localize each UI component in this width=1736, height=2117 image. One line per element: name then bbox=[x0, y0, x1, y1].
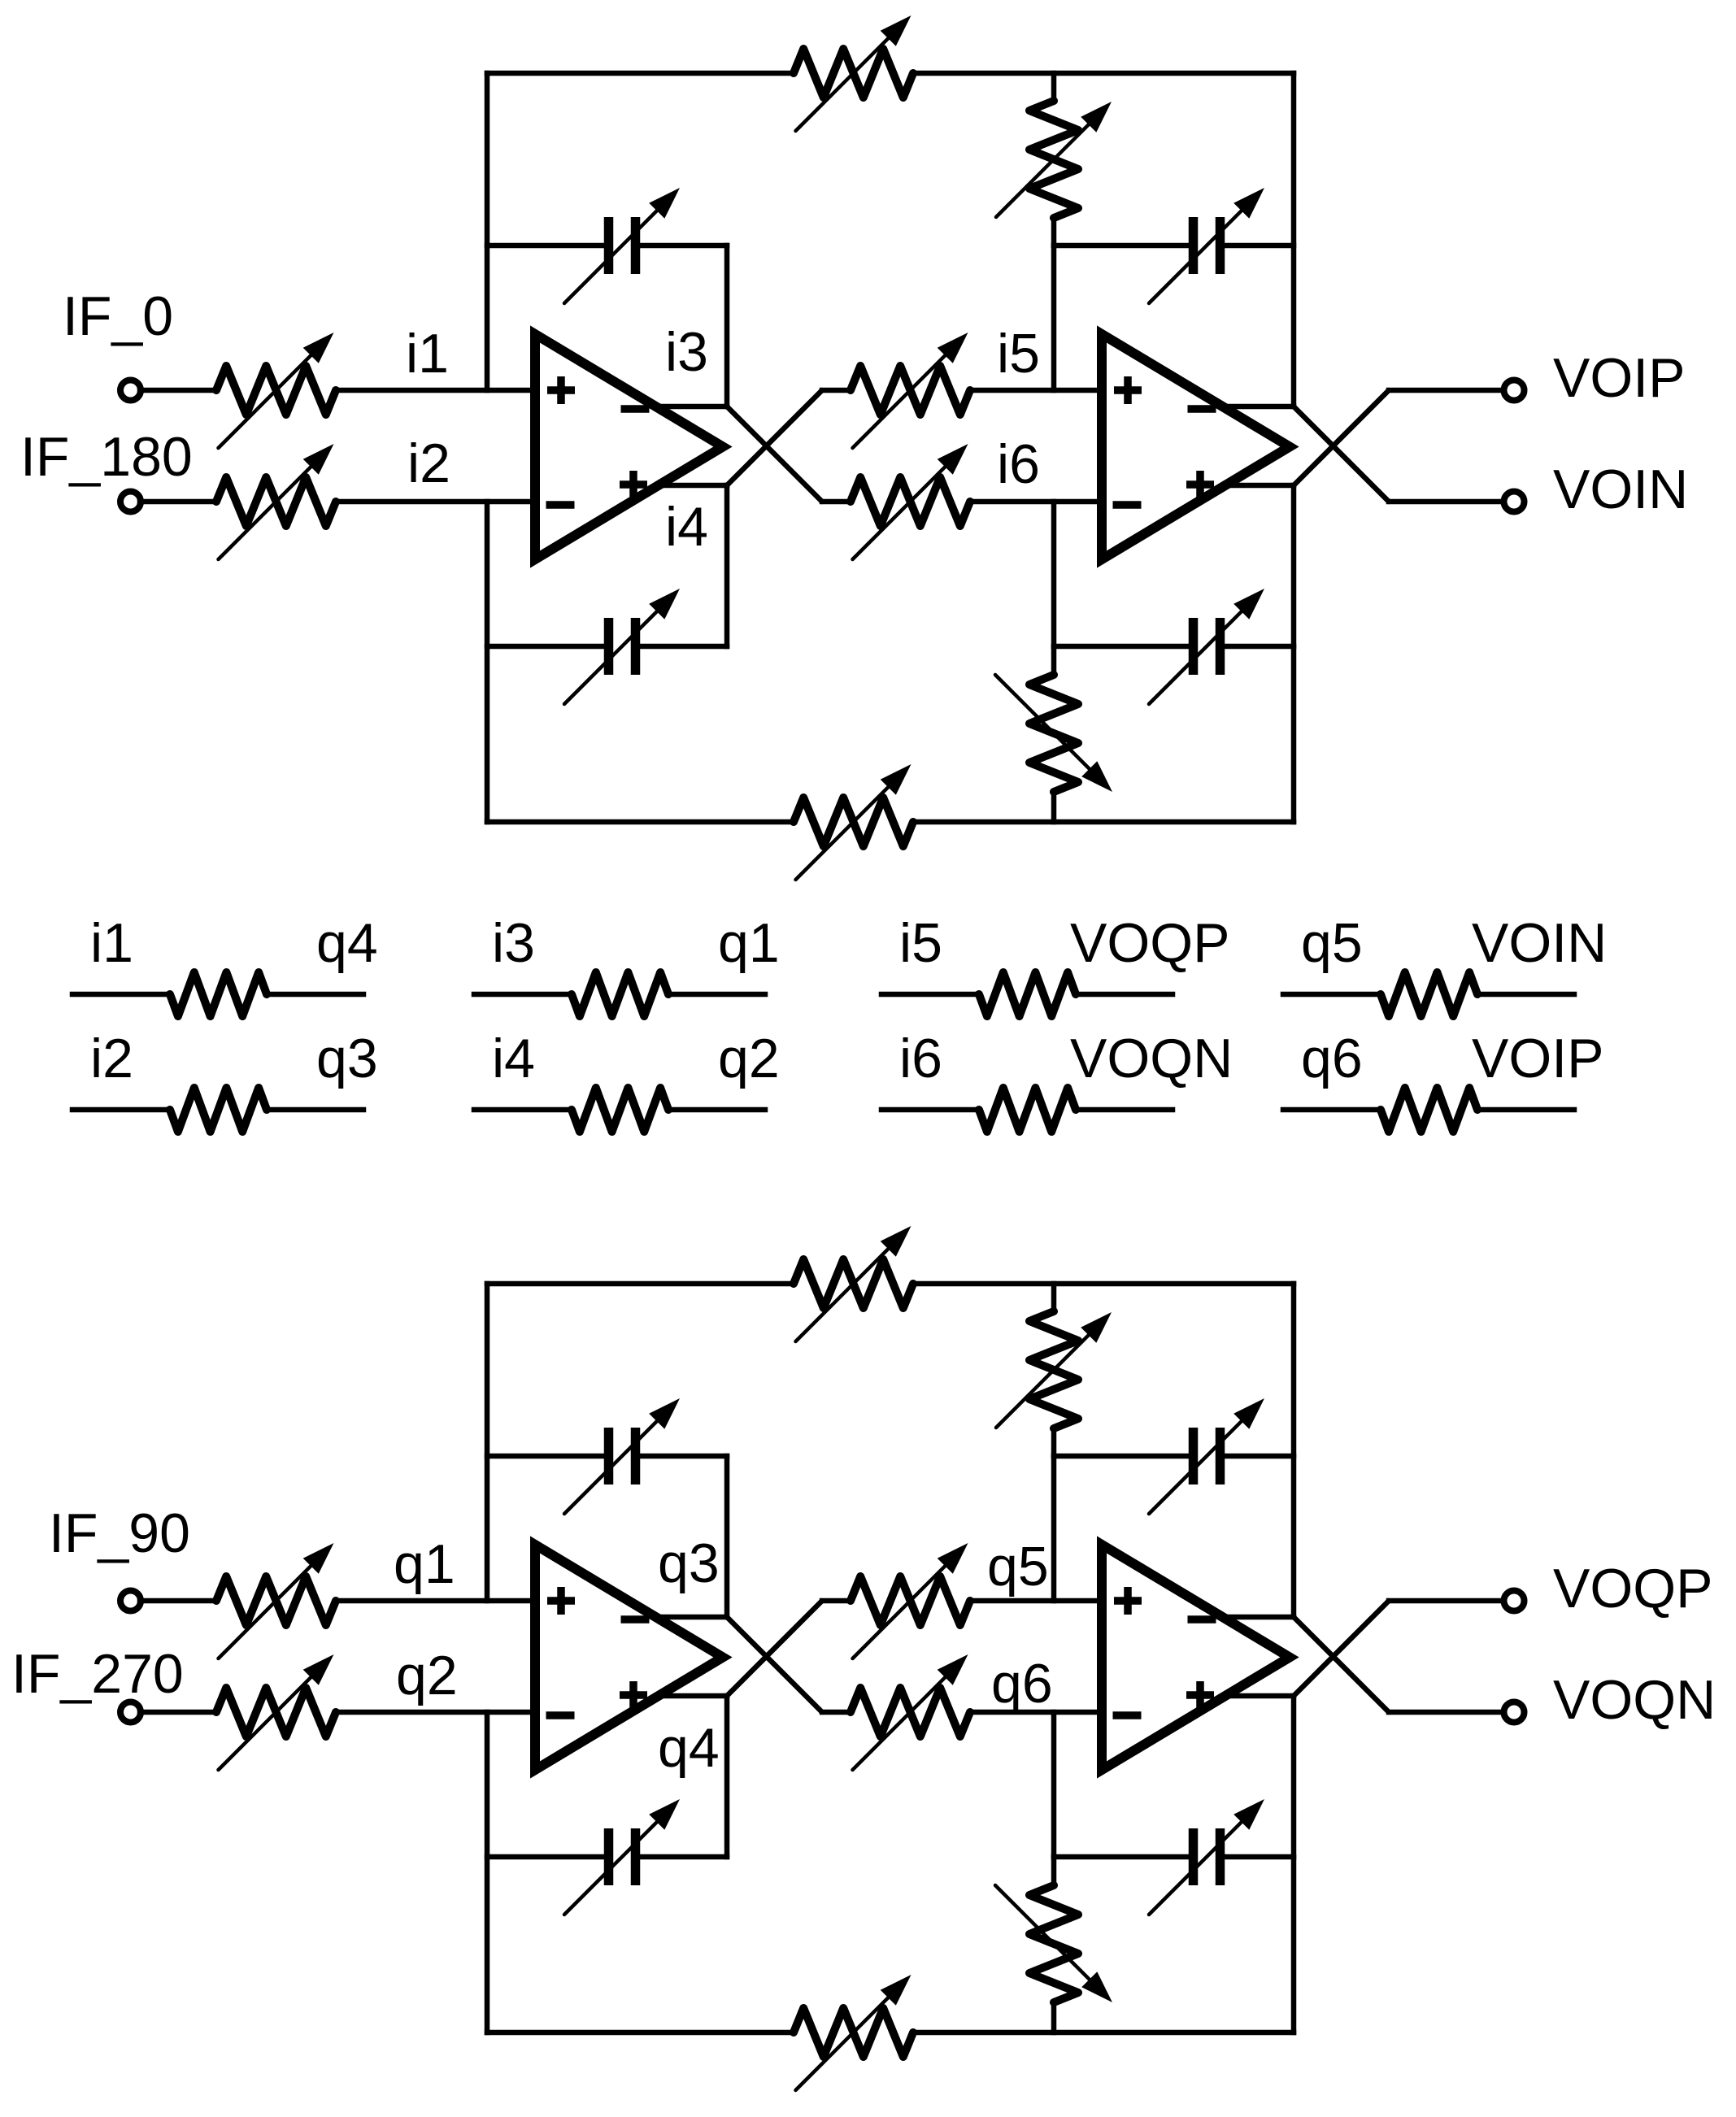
op-amp A2 + input sign bbox=[1114, 1587, 1142, 1615]
svg-text:VOIP: VOIP bbox=[1472, 1028, 1604, 1089]
resistor variable, IF_90 to node q1 bbox=[216, 1543, 336, 1658]
wire node q2 vertical to bottom feedback loop bbox=[485, 1712, 490, 2032]
wire bottom feedback loop right segment bbox=[913, 819, 1294, 825]
op-amp A1 bbox=[535, 334, 723, 559]
svg-text:i4: i4 bbox=[665, 496, 708, 558]
resistor variable, vertical feedback output node to i6 bbox=[995, 675, 1112, 792]
wire node q4 vertical bbox=[724, 1696, 730, 1857]
svg-text:q5: q5 bbox=[1301, 912, 1363, 974]
op-amp A1 + input sign bbox=[547, 376, 575, 404]
svg-text:IF_90: IF_90 bbox=[49, 1502, 190, 1564]
svg-text:VOQP: VOQP bbox=[1553, 1558, 1713, 1619]
node label i6 bbox=[899, 1028, 942, 1089]
wire A2 lower cap rail output side bbox=[1225, 1854, 1294, 1860]
svg-text:q1: q1 bbox=[718, 912, 780, 974]
capacitor variable, op-amp A1 upper feedback q1 to q3 bbox=[564, 1398, 680, 1514]
node label i4 bbox=[492, 1028, 535, 1089]
wire input resistor to node q1 and op-amp A1 + input bbox=[336, 1598, 535, 1604]
node label q3 bbox=[658, 1532, 720, 1594]
wire bottom feedback loop left segment bbox=[487, 819, 794, 825]
wire resistor to node q6 and op-amp A2 - input bbox=[970, 1710, 1102, 1715]
op-amp A1 - output sign bbox=[621, 405, 650, 413]
wire resistor to node i5 and op-amp A2 + input bbox=[970, 388, 1102, 393]
svg-text:i4: i4 bbox=[492, 1028, 535, 1089]
wire A2 upper cap rail q5 side bbox=[1054, 1454, 1189, 1459]
wire upper vertical resistor to upper cap rail bbox=[1051, 218, 1057, 246]
svg-text:i1: i1 bbox=[406, 323, 449, 385]
node label i3 bbox=[665, 321, 708, 383]
terminal IF_0 bbox=[120, 380, 141, 401]
wire node i6 vertical bbox=[1051, 502, 1057, 646]
node label i5 bbox=[997, 323, 1040, 385]
resistor coupling q5 to VOIN bbox=[1283, 972, 1574, 1016]
terminal VOIN bbox=[1504, 492, 1525, 512]
wire IF_270 terminal to input resistor bbox=[140, 1710, 216, 1715]
node label i2 bbox=[407, 433, 450, 494]
wire upper rail into resistor to q5 bbox=[822, 1598, 851, 1604]
resistor variable, vertical feedback output node to q5 bbox=[996, 1311, 1112, 1428]
svg-text:i3: i3 bbox=[492, 912, 535, 974]
wire A2 lower cap rail q6 side bbox=[1054, 1854, 1189, 1860]
wire bottom feedback loop right segment bbox=[913, 2030, 1294, 2036]
wire node i1 vertical to top feedback loop bbox=[485, 73, 490, 390]
wire A2 upper cap rail output side bbox=[1225, 243, 1294, 249]
wire upper rail into resistor to i5 bbox=[822, 388, 851, 393]
wire crossover q4 to upper rail bbox=[727, 1601, 822, 1696]
svg-text:VOIP: VOIP bbox=[1553, 347, 1686, 409]
resistor coupling i2 to q3 bbox=[72, 1088, 363, 1132]
resistor variable, i4 to i5 bbox=[851, 333, 970, 448]
wire top feedback loop right segment bbox=[913, 1281, 1294, 1287]
node label q5 bbox=[987, 1536, 1049, 1598]
svg-text:IF_0: IF_0 bbox=[63, 285, 173, 347]
svg-text:VOIN: VOIN bbox=[1553, 459, 1688, 520]
op-amp A1 + output sign bbox=[620, 471, 647, 498]
capacitor variable, op-amp A2 upper feedback i5 to output bbox=[1149, 188, 1264, 303]
resistor variable, IF_180 to node i2 bbox=[216, 444, 336, 559]
wire upper vertical resistor to upper cap rail bbox=[1051, 1428, 1057, 1456]
node label q2 bbox=[396, 1645, 458, 1706]
op-amp A2 - output sign bbox=[1188, 405, 1216, 413]
svg-text:i6: i6 bbox=[997, 433, 1040, 495]
node label VOQP bbox=[1070, 912, 1230, 974]
svg-text:IF_270: IF_270 bbox=[11, 1643, 184, 1705]
resistor coupling i5 to VOQP bbox=[881, 972, 1173, 1016]
wire output node to upper vertical resistor bbox=[1051, 1284, 1057, 1311]
wire lower rail into resistor to q6 bbox=[822, 1710, 851, 1715]
wire node i2 vertical to bottom feedback loop bbox=[485, 502, 490, 822]
node label i1 bbox=[406, 323, 449, 385]
op-amp A2 bbox=[1102, 1545, 1290, 1770]
svg-text:q6: q6 bbox=[991, 1653, 1053, 1715]
node label i1 bbox=[90, 912, 133, 974]
capacitor variable, op-amp A1 lower feedback i2 to i4 bbox=[564, 589, 680, 704]
node label i6 bbox=[997, 433, 1040, 495]
svg-text:q2: q2 bbox=[718, 1028, 780, 1089]
wire lower rail into resistor to i6 bbox=[822, 499, 851, 505]
label IF_270 bbox=[11, 1643, 184, 1705]
terminal VOIP bbox=[1504, 380, 1525, 401]
resistor coupling q6 to VOIP bbox=[1283, 1088, 1574, 1132]
label VOIP bbox=[1553, 347, 1686, 409]
terminal IF_180 bbox=[120, 492, 141, 512]
wire crossover i3 to lower rail bbox=[727, 406, 822, 502]
wire op-amp A1 - output stub node q3 bbox=[659, 1615, 727, 1620]
capacitor variable, op-amp A1 lower feedback q2 to q4 bbox=[564, 1799, 680, 1915]
svg-text:i3: i3 bbox=[665, 321, 708, 383]
svg-text:q1: q1 bbox=[394, 1533, 455, 1595]
capacitor variable, op-amp A2 lower feedback i6 to output bbox=[1149, 589, 1264, 704]
resistor variable, vertical feedback output node to i5 bbox=[996, 101, 1112, 218]
wire to VOIP terminal bbox=[1389, 388, 1503, 393]
wire top feedback loop right segment bbox=[913, 71, 1294, 76]
wire input resistor to node q2 and op-amp A1 - input bbox=[336, 1710, 535, 1715]
resistor variable, q3 to q6 bbox=[851, 1654, 970, 1770]
wire bottom feedback loop left segment bbox=[487, 2030, 794, 2036]
op-amp A2 + output sign bbox=[1186, 1681, 1214, 1709]
wire op-amp A2 - output stub bbox=[1225, 1615, 1294, 1620]
capacitor variable, op-amp A2 lower feedback q6 to output bbox=[1149, 1799, 1264, 1915]
svg-text:VOQP: VOQP bbox=[1070, 912, 1230, 974]
wire node i4 vertical bbox=[724, 485, 730, 646]
wire lower cap rail to lower vertical resistor bbox=[1051, 646, 1057, 675]
op-amp A1 + output sign bbox=[620, 1681, 647, 1709]
svg-text:q4: q4 bbox=[316, 912, 378, 974]
wire crossover A2 + output to VOQP bbox=[1294, 1601, 1389, 1696]
wire IF_90 terminal to input resistor bbox=[140, 1598, 216, 1604]
wire to VOQP terminal bbox=[1389, 1598, 1503, 1604]
op-amp A2 - input sign bbox=[1113, 1711, 1142, 1719]
wire IF_180 terminal to input resistor bbox=[140, 499, 216, 505]
wire top feedback loop left segment bbox=[487, 1281, 794, 1287]
wire output node to upper vertical resistor bbox=[1051, 73, 1057, 101]
terminal IF_90 bbox=[120, 1591, 141, 1611]
resistor coupling i1 to q4 bbox=[72, 972, 363, 1016]
svg-text:q4: q4 bbox=[658, 1717, 720, 1779]
svg-text:q5: q5 bbox=[987, 1536, 1049, 1598]
op-amp A2 + input sign bbox=[1114, 376, 1142, 404]
node label i3 bbox=[492, 912, 535, 974]
label VOQP bbox=[1553, 1558, 1713, 1619]
svg-text:q6: q6 bbox=[1301, 1028, 1363, 1089]
wire IF_0 terminal to input resistor bbox=[140, 388, 216, 393]
op-amp A2 - output sign bbox=[1188, 1615, 1216, 1624]
wire lower cap rail i4 side bbox=[640, 644, 727, 650]
svg-text:q3: q3 bbox=[316, 1028, 378, 1089]
wire A2 upper cap rail i5 side bbox=[1054, 243, 1189, 249]
wire A2 lower cap rail i6 side bbox=[1054, 644, 1189, 650]
svg-text:q2: q2 bbox=[396, 1645, 458, 1706]
resistor variable, top feedback q1 to output node bbox=[794, 1226, 913, 1341]
wire top feedback loop left segment bbox=[487, 71, 794, 76]
svg-text:VOIN: VOIN bbox=[1472, 912, 1607, 974]
node label q4 bbox=[658, 1717, 720, 1779]
wire upper cap rail i1 side bbox=[487, 243, 604, 249]
wire output node lower vertical bbox=[1291, 1696, 1297, 2032]
svg-text:VOQN: VOQN bbox=[1070, 1028, 1233, 1089]
capacitor variable, op-amp A2 upper feedback q5 to output bbox=[1149, 1398, 1264, 1514]
wire lower cap rail q4 side bbox=[640, 1854, 727, 1860]
node label i4 bbox=[665, 496, 708, 558]
op-amp A2 - input sign bbox=[1113, 501, 1142, 509]
wire lower vertical resistor to bottom loop bbox=[1051, 2002, 1057, 2032]
label IF_0 bbox=[63, 285, 173, 347]
node label VOIN bbox=[1472, 912, 1607, 974]
wire node q5 vertical bbox=[1051, 1456, 1057, 1601]
node label q4 bbox=[316, 912, 378, 974]
node label VOIP bbox=[1472, 1028, 1604, 1089]
svg-text:q3: q3 bbox=[658, 1532, 720, 1594]
label IF_180 bbox=[20, 426, 193, 488]
op-amp A1 bbox=[535, 1545, 723, 1770]
svg-text:i5: i5 bbox=[997, 323, 1040, 385]
wire input resistor to node i1 and op-amp A1 + input bbox=[336, 388, 535, 393]
wire resistor to node i6 and op-amp A2 - input bbox=[970, 499, 1102, 505]
resistor coupling i6 to VOQN bbox=[881, 1088, 1173, 1132]
svg-text:i2: i2 bbox=[407, 433, 450, 494]
wire A2 upper cap rail output side bbox=[1225, 1454, 1294, 1459]
label VOQN bbox=[1553, 1669, 1716, 1731]
terminal VOQP bbox=[1504, 1591, 1525, 1611]
op-amp A1 - output sign bbox=[621, 1615, 650, 1624]
node label i5 bbox=[899, 912, 942, 974]
resistor variable, IF_0 to node i1 bbox=[216, 333, 336, 448]
node label q1 bbox=[394, 1533, 455, 1595]
wire lower cap rail to lower vertical resistor bbox=[1051, 1857, 1057, 1885]
op-amp A2 bbox=[1102, 334, 1290, 559]
terminal IF_270 bbox=[120, 1702, 141, 1723]
resistor variable, i3 to i6 bbox=[851, 444, 970, 559]
op-amp A1 + input sign bbox=[547, 1587, 575, 1615]
resistor variable, q4 to q5 bbox=[851, 1543, 970, 1658]
op-amp A2 + output sign bbox=[1186, 471, 1214, 498]
wire node q3 vertical bbox=[724, 1456, 730, 1617]
wire op-amp A2 - output stub bbox=[1225, 404, 1294, 410]
wire node q1 vertical to top feedback loop bbox=[485, 1284, 490, 1601]
node label q5 bbox=[1301, 912, 1363, 974]
node label q6 bbox=[1301, 1028, 1363, 1089]
node label i2 bbox=[90, 1028, 133, 1089]
resistor variable, bottom feedback i2 to output node bbox=[794, 764, 913, 880]
wire upper cap rail i3 side bbox=[640, 243, 727, 249]
node label q6 bbox=[991, 1653, 1053, 1715]
wire crossover A2 - output to VOQN bbox=[1294, 1617, 1389, 1712]
terminal VOQN bbox=[1504, 1702, 1525, 1723]
wire lower cap rail i2 side bbox=[487, 644, 604, 650]
wire to VOIN terminal bbox=[1389, 499, 1503, 505]
node label VOQN bbox=[1070, 1028, 1233, 1089]
wire upper cap rail q3 side bbox=[640, 1454, 727, 1459]
svg-text:i6: i6 bbox=[899, 1028, 942, 1089]
wire lower vertical resistor to bottom loop bbox=[1051, 792, 1057, 822]
wire output node upper vertical bbox=[1291, 73, 1297, 406]
wire node i3 vertical bbox=[724, 246, 730, 406]
wire output node lower vertical bbox=[1291, 485, 1297, 822]
wire crossover A2 + output to VOIP bbox=[1294, 390, 1389, 485]
wire A2 lower cap rail output side bbox=[1225, 644, 1294, 650]
wire node i5 vertical bbox=[1051, 246, 1057, 390]
wire crossover A2 - output to VOIN bbox=[1294, 406, 1389, 502]
wire op-amp A2 + output stub bbox=[1225, 483, 1294, 489]
svg-text:VOQN: VOQN bbox=[1553, 1669, 1716, 1731]
wire input resistor to node i2 and op-amp A1 - input bbox=[336, 499, 535, 505]
svg-text:i5: i5 bbox=[899, 912, 942, 974]
wire op-amp A1 + output stub node i4 bbox=[659, 483, 727, 489]
capacitor variable, op-amp A1 upper feedback i1 to i3 bbox=[564, 188, 680, 303]
node label q3 bbox=[316, 1028, 378, 1089]
op-amp A1 - input sign bbox=[546, 501, 575, 509]
wire upper cap rail q1 side bbox=[487, 1454, 604, 1459]
wire op-amp A1 + output stub node q4 bbox=[659, 1693, 727, 1699]
svg-text:IF_180: IF_180 bbox=[20, 426, 193, 488]
wire to VOQN terminal bbox=[1389, 1710, 1503, 1715]
wire lower cap rail q2 side bbox=[487, 1854, 604, 1860]
resistor variable, IF_270 to node q2 bbox=[216, 1654, 336, 1770]
node label q1 bbox=[718, 912, 780, 974]
wire op-amp A2 + output stub bbox=[1225, 1693, 1294, 1699]
label VOIN bbox=[1553, 459, 1688, 520]
resistor variable, vertical feedback output node to q6 bbox=[995, 1885, 1112, 2002]
wire output node upper vertical bbox=[1291, 1284, 1297, 1617]
svg-text:i1: i1 bbox=[90, 912, 133, 974]
wire op-amp A1 - output stub node i3 bbox=[659, 404, 727, 410]
resistor variable, top feedback i1 to output node bbox=[794, 15, 913, 131]
label IF_90 bbox=[49, 1502, 190, 1564]
node label q2 bbox=[718, 1028, 780, 1089]
wire crossover i4 to upper rail bbox=[727, 390, 822, 485]
wire resistor to node q5 and op-amp A2 + input bbox=[970, 1598, 1102, 1604]
resistor coupling i3 to q1 bbox=[474, 972, 765, 1016]
op-amp A1 - input sign bbox=[546, 1711, 575, 1719]
wire crossover q3 to lower rail bbox=[727, 1617, 822, 1712]
svg-text:i2: i2 bbox=[90, 1028, 133, 1089]
wire node q6 vertical bbox=[1051, 1712, 1057, 1857]
resistor coupling i4 to q2 bbox=[474, 1088, 765, 1132]
resistor variable, bottom feedback q2 to output node bbox=[794, 1975, 913, 2090]
